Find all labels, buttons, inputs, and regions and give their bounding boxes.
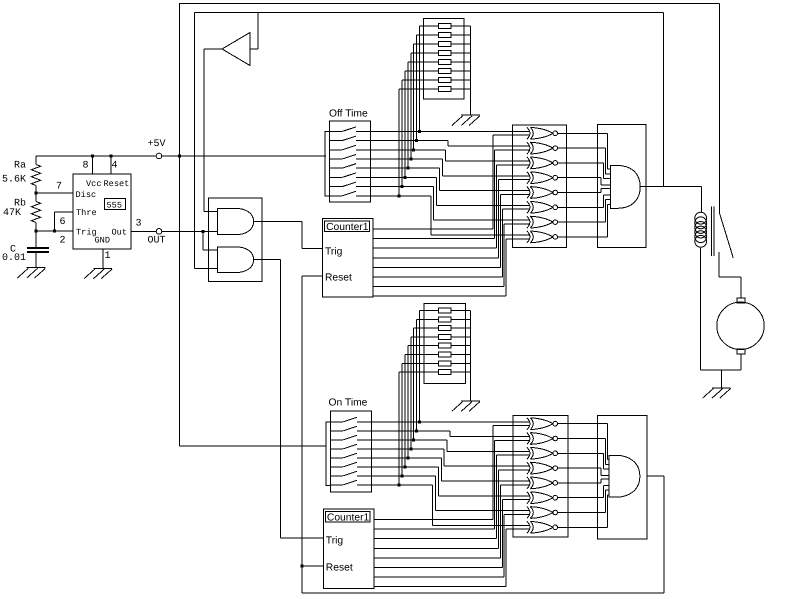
wire U5E output xyxy=(558,192,601,194)
XNOR gate U5F xyxy=(527,201,558,213)
resistor Rb xyxy=(32,193,41,231)
switch SW1 Off Time switch 2 xyxy=(329,136,356,141)
ground (resistor pack RP1) xyxy=(452,115,480,125)
wire U9 input 1 funnel xyxy=(607,424,609,460)
wire coil bottom down xyxy=(700,248,702,370)
AND gate U9 xyxy=(609,455,640,497)
wire U8B output xyxy=(558,438,606,440)
wire RP2 R2 lead down xyxy=(416,319,418,431)
wire SW1 row 1 xyxy=(356,130,529,132)
wire U6 input 6 funnel xyxy=(604,195,611,207)
switch SW1 Off Time switch 5 xyxy=(329,164,356,169)
node +5V junction on left frame xyxy=(178,155,181,158)
AND pair block box xyxy=(208,198,262,281)
svg-text:On Time: On Time xyxy=(329,398,368,409)
wire U4 Q5 xyxy=(373,194,529,267)
wire U6 input 2 funnel xyxy=(606,148,611,174)
node RP2 lead 2 junction xyxy=(415,429,418,432)
wire SW1 row 8 xyxy=(356,196,529,235)
XNOR gate U8D xyxy=(527,462,558,474)
wire SW1 row 7 xyxy=(356,187,529,221)
wire SW1 row 5 xyxy=(356,168,529,190)
node RP2 lead 8 junction xyxy=(398,483,401,486)
wire U5G output xyxy=(558,221,606,223)
wire U6 input 1 funnel xyxy=(607,133,610,169)
resistor pack RP1 element R7 xyxy=(439,77,452,82)
wire U8A output xyxy=(558,423,608,425)
switch SW1 Off Time switch 6 xyxy=(329,173,356,178)
wire U4 Q4 xyxy=(373,180,529,258)
switch SW1 Off Time switch 3 xyxy=(329,145,356,150)
wire U9 input 2 funnel xyxy=(606,439,610,465)
wire U4 Q6 xyxy=(373,209,529,277)
XNOR gate U5D xyxy=(527,172,558,184)
resistor pack RP1 element R2 xyxy=(439,32,452,37)
node OUT branch junction xyxy=(201,230,204,233)
wire U8G output xyxy=(558,512,606,514)
resistor pack RP1 element R3 xyxy=(439,41,452,46)
XNOR gate U5C xyxy=(527,157,558,169)
wire Thre pin 6 branch xyxy=(55,212,73,231)
svg-text:OUT: OUT xyxy=(148,236,166,247)
ground (motor) xyxy=(703,388,731,398)
wire +5V outer frame left xyxy=(179,3,181,446)
resistor pack RP1 common wire to ground xyxy=(470,26,472,115)
wire U6 input 7 funnel xyxy=(606,200,611,223)
XNOR gate U5B xyxy=(527,142,558,154)
wire U9 input 6 funnel xyxy=(604,485,609,497)
wire U2A output to Counter1 Trig xyxy=(254,221,323,248)
wire U5F output xyxy=(558,206,604,208)
wire RP1 R8 lead down xyxy=(398,89,400,196)
XNOR block box U5 xyxy=(513,125,567,247)
wire SW1 row 6 xyxy=(356,177,529,205)
svg-text:1: 1 xyxy=(105,251,111,262)
wire U6 input 3 funnel xyxy=(604,163,611,179)
svg-text:3: 3 xyxy=(136,219,142,230)
wire Out pin 3 xyxy=(131,230,157,232)
wire SW2 row 5 xyxy=(357,458,529,481)
XNOR gate U8G xyxy=(527,507,558,519)
switch SW2 On Time switch 8 xyxy=(330,480,357,485)
wire U8E output xyxy=(558,482,601,484)
wire U5B output xyxy=(558,147,606,149)
wire U9 input 4 funnel xyxy=(601,468,609,475)
resistor pack RP2 element R1 xyxy=(439,308,452,313)
switch SW1 Off Time common bus xyxy=(325,131,330,195)
wire SW2 row 1 xyxy=(357,421,529,423)
node RP1 lead 2 junction xyxy=(415,139,418,142)
node Rb/C/Trig junction xyxy=(35,230,38,233)
wire U4 Q7 xyxy=(373,224,529,287)
wire +5V outer frame right (to relay switch) xyxy=(719,4,721,214)
switch SW2 On Time switch 6 xyxy=(330,462,357,467)
wire U6 input 4 funnel xyxy=(601,178,611,185)
svg-text:555: 555 xyxy=(107,201,122,211)
buffer U3 output wire xyxy=(204,48,222,50)
wire U5A output xyxy=(558,132,608,134)
svg-text:Ra: Ra xyxy=(14,161,26,172)
counter U4 Counter1 name box xyxy=(325,221,370,232)
wire +5V outer frame top xyxy=(180,3,720,5)
svg-text:Counter1: Counter1 xyxy=(326,222,369,233)
wire U7 Q7 xyxy=(374,514,529,577)
ground (resistor pack RP2) xyxy=(452,401,480,411)
switch SW1 Off Time switch 1 xyxy=(329,127,356,131)
wire U9 input 3 funnel xyxy=(604,453,609,469)
svg-text:0.01: 0.01 xyxy=(2,253,26,264)
node RP1 lead 6 junction xyxy=(404,176,407,179)
wire U8D output xyxy=(558,467,601,469)
switch SW2 On Time switch 1 xyxy=(330,417,357,422)
wire OUT branch down to AND2 input a xyxy=(203,231,218,250)
buffer output riser down to AND pair xyxy=(203,49,205,212)
svg-text:Off Time: Off Time xyxy=(329,109,368,120)
wire U7 Q5 xyxy=(374,485,529,558)
switch SW1 Off Time switch 4 xyxy=(329,155,356,160)
wire RP2 R6 lead down xyxy=(404,355,406,467)
wire U4 Q8 xyxy=(373,239,529,296)
wire RP2 R8 lead down xyxy=(398,372,400,485)
AND gate U2A xyxy=(218,208,254,234)
wire SW2 row 6 xyxy=(357,467,529,496)
resistor pack RP1 element R8 xyxy=(439,86,452,91)
terminal OUT xyxy=(156,229,162,235)
wire +5V rail xyxy=(36,155,157,157)
wire Trig pin 2 xyxy=(36,230,73,232)
wire RP1 R4 lead down xyxy=(410,53,412,159)
relay contact lower terminal xyxy=(719,252,741,298)
AND block box U6 xyxy=(598,125,646,248)
counter U7 Counter1 box xyxy=(323,509,374,588)
node Thre/Trig junction xyxy=(53,230,56,233)
svg-text:Thre: Thre xyxy=(76,208,97,218)
svg-text:Counter1: Counter1 xyxy=(327,512,370,523)
wire inner loop right riser xyxy=(663,13,665,187)
switch SW2 On Time box xyxy=(330,411,371,492)
XNOR gate U8B xyxy=(527,433,558,445)
svg-text:Trig: Trig xyxy=(326,536,344,547)
resistor pack RP1 element R5 xyxy=(439,59,452,64)
node RP1 lead 7 junction xyxy=(401,185,404,188)
switch SW1 Off Time switch 8 xyxy=(329,191,356,196)
counter U7 Counter1 name box xyxy=(326,511,371,522)
svg-text:Reset: Reset xyxy=(325,272,352,283)
wire SW2 row 8 xyxy=(357,485,529,526)
node RP2 lead 1 junction xyxy=(418,420,421,423)
svg-text:Out: Out xyxy=(112,228,127,238)
wire RP1 R6 lead down xyxy=(404,71,406,177)
wire U6 input 8 funnel xyxy=(607,205,610,237)
resistor pack RP1 element R4 xyxy=(439,50,452,55)
wire U7 Q2 xyxy=(374,440,529,529)
wire SW1 row 3 xyxy=(356,150,529,161)
wire RP1 R2 lead down xyxy=(416,35,418,141)
wire RP1 R5 lead down xyxy=(407,62,409,168)
555 value box xyxy=(105,199,126,210)
relay contact lever xyxy=(720,213,734,258)
switch SW2 On Time switch 3 xyxy=(330,435,357,440)
wire U7 Q4 xyxy=(374,470,529,548)
XNOR gate U5E xyxy=(527,187,558,199)
svg-text:7: 7 xyxy=(56,182,62,193)
motor M1 xyxy=(717,302,764,349)
resistor Ra xyxy=(32,156,41,193)
XNOR block box U8 xyxy=(513,416,568,538)
wire U4 Q2 xyxy=(373,150,529,239)
XNOR gate U5H xyxy=(527,231,558,243)
op-amp U1 555 timer box xyxy=(73,174,131,249)
svg-text:Reset: Reset xyxy=(104,179,130,189)
wire +5V feed to On Time switch bus xyxy=(180,445,326,447)
wire U5H output xyxy=(558,236,608,238)
resistor pack RP2 element R7 xyxy=(439,361,452,366)
node Reset branch to Counter2 xyxy=(300,565,303,568)
node RP1 lead 5 junction xyxy=(406,167,409,170)
switch SW2 On Time switch 7 xyxy=(330,471,357,476)
switch SW2 On Time switch 2 xyxy=(330,426,357,431)
resistor pack RP1 outline xyxy=(423,18,464,98)
switch SW2 On Time switch 5 xyxy=(330,453,357,458)
svg-text:GND: GND xyxy=(95,236,110,246)
node RP2 lead 5 junction xyxy=(406,456,409,459)
svg-text:47K: 47K xyxy=(3,208,21,219)
switch SW1 Off Time box xyxy=(329,121,370,202)
node RP1 lead 3 junction xyxy=(412,148,415,151)
wire SW2 row 3 xyxy=(357,440,529,452)
XNOR gate U5A xyxy=(527,127,558,139)
switch SW1 Off Time switch 7 xyxy=(329,182,356,187)
terminal +5V xyxy=(156,153,162,159)
XNOR gate U5G xyxy=(527,216,558,228)
wire U5D output xyxy=(558,177,601,179)
switch SW2 On Time switch 4 xyxy=(330,444,357,449)
relay coil L1 xyxy=(695,212,707,247)
svg-text:Reset: Reset xyxy=(326,563,353,574)
wire U7 Q1 xyxy=(374,426,529,520)
relay core bars xyxy=(711,206,714,256)
wire RP1 R7 lead down xyxy=(401,80,403,187)
wire U9 input 8 funnel xyxy=(607,495,609,527)
ground (555 GND) xyxy=(84,268,112,278)
AND block box U9 xyxy=(598,416,647,539)
wire U4 Q3 xyxy=(373,165,529,248)
wire Reset net riser xyxy=(302,276,323,593)
node Ra/Rb/Disc junction xyxy=(35,192,38,195)
wire U8H output xyxy=(558,526,608,528)
resistor pack RP1 element R6 xyxy=(439,68,452,73)
motor M1 terminal top xyxy=(737,298,745,303)
wire SW2 row 2 xyxy=(357,431,529,437)
wire SW2 row 4 xyxy=(357,449,529,466)
resistor pack RP2 element R4 xyxy=(439,334,452,339)
counter U4 Counter1 box xyxy=(323,219,374,298)
AND gate U2B xyxy=(218,247,254,273)
pin 4 Reset wire xyxy=(110,156,112,174)
node RP1 lead 8 junction xyxy=(398,194,401,197)
wire RP2 R7 lead down xyxy=(401,363,403,476)
wire RP2 R5 lead down xyxy=(407,346,409,458)
wire RP1 R3 lead down xyxy=(413,44,415,150)
svg-text:Vcc: Vcc xyxy=(86,179,101,189)
wire OUT to AND pair xyxy=(162,230,218,232)
wire Reset branch to Counter2 xyxy=(302,565,324,567)
wire SW1 row 4 xyxy=(356,159,529,176)
svg-text:5.6K: 5.6K xyxy=(2,175,26,186)
svg-text:8: 8 xyxy=(83,161,89,172)
buffer U3 (triangle amplifier) xyxy=(222,33,250,66)
wire to AND2 pair input b xyxy=(195,268,218,270)
capacitor C 0.01 xyxy=(27,231,49,268)
resistor pack RP2 element R6 xyxy=(439,352,452,357)
wire SW1 row 2 xyxy=(356,141,529,147)
XNOR gate U8F xyxy=(527,492,558,504)
wire U6 input 5 funnel xyxy=(601,189,611,193)
node RP2 lead 7 junction xyxy=(401,474,404,477)
wire inner loop left xyxy=(194,13,196,269)
node RP2 lead 6 junction xyxy=(404,465,407,468)
XNOR gate U8H xyxy=(527,521,558,533)
wire RP2 R3 lead down xyxy=(413,328,415,440)
wire U2B output to Counter2 Trig xyxy=(254,259,324,538)
wire Disc pin 7 xyxy=(36,192,73,194)
resistor pack RP2 element R8 xyxy=(439,370,452,375)
wire Reset return bottom xyxy=(302,592,664,594)
XNOR gate U8C xyxy=(527,447,558,459)
wire U4 Q1 xyxy=(373,135,529,229)
wire motor bottom xyxy=(701,354,741,370)
resistor pack RP2 outline xyxy=(424,304,465,384)
wire RP1 R1 lead down xyxy=(419,26,421,131)
svg-text:6: 6 xyxy=(60,217,66,228)
wire U7 Q6 xyxy=(374,500,529,568)
pin 8 Vcc wire xyxy=(92,156,94,174)
ground (capacitor C) xyxy=(17,268,45,278)
node RP2 lead 4 junction xyxy=(409,447,412,450)
node RP1 lead 4 junction xyxy=(409,158,412,161)
XNOR gate U8E xyxy=(527,477,558,489)
resistor pack RP2 element R3 xyxy=(439,326,452,331)
svg-text:Trig: Trig xyxy=(325,246,343,257)
svg-text:+5V: +5V xyxy=(148,139,166,150)
wire U5C output xyxy=(558,162,604,164)
wire SW2 row 7 xyxy=(357,476,529,511)
resistor pack RP2 element R5 xyxy=(439,343,452,348)
wire RP2 R4 lead down xyxy=(410,337,412,449)
wire RP2 R1 lead down xyxy=(419,311,421,422)
switch SW2 On Time common bus xyxy=(326,422,331,486)
wire AND4 output return riser xyxy=(663,476,665,593)
XNOR gate U8A xyxy=(527,418,558,430)
wire U8C output xyxy=(558,452,604,454)
wire U8F output xyxy=(558,497,604,499)
wire U9 input 7 funnel xyxy=(606,490,610,513)
buffer U3 input riser xyxy=(257,13,259,50)
wire inner loop top (AND1 output return) xyxy=(195,12,664,14)
wire U7 Q8 xyxy=(374,529,529,587)
wire U7 Q3 xyxy=(374,455,529,539)
wire U9 input 5 funnel xyxy=(601,479,609,483)
wire ground stem xyxy=(720,370,722,388)
wire U6 output to relay coil xyxy=(640,187,701,212)
resistor pack RP1 element R1 xyxy=(439,23,452,28)
svg-text:Disc: Disc xyxy=(76,190,97,200)
svg-text:2: 2 xyxy=(60,236,66,247)
node RP2 lead 3 junction xyxy=(412,438,415,441)
AND gate U6 xyxy=(611,166,641,209)
resistor pack RP2 element R2 xyxy=(439,317,452,322)
node RP1 lead 1 junction xyxy=(418,130,421,133)
pin 1 GND wire xyxy=(102,249,104,268)
motor M1 terminal bottom xyxy=(737,349,745,354)
svg-text:4: 4 xyxy=(112,161,118,172)
resistor pack RP2 common wire to ground xyxy=(470,311,472,402)
